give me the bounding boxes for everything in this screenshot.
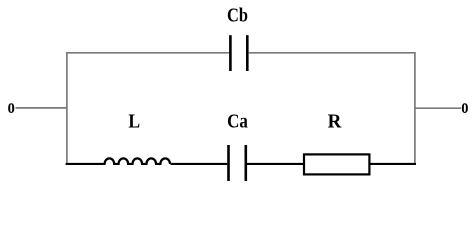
capacitor Cb bbox=[230, 35, 247, 71]
svg-text:Ca: Ca bbox=[227, 110, 248, 133]
wire Cb to top right corner bbox=[248, 52, 415, 54]
wire bottom left segment bbox=[66, 163, 106, 165]
svg-text:Cb: Cb bbox=[227, 4, 248, 26]
wire left vertical of box bbox=[66, 52, 68, 165]
wire resistor to bottom right corner bbox=[370, 163, 416, 165]
inductor L bbox=[105, 158, 170, 164]
wire Ca to resistor bbox=[247, 163, 304, 165]
wire top left horizontal to Cb bbox=[66, 52, 229, 54]
svg-text:o: o bbox=[8, 95, 15, 118]
wire inductor to Ca bbox=[171, 163, 228, 165]
capacitor Ca bbox=[229, 145, 246, 181]
wire right vertical of box bbox=[414, 52, 416, 165]
resistor R bbox=[304, 154, 369, 174]
wire right vertical to right terminal bbox=[415, 107, 462, 109]
svg-text:R: R bbox=[328, 111, 343, 133]
wire left terminal to left vertical bbox=[16, 107, 68, 109]
svg-text:L: L bbox=[128, 110, 140, 132]
svg-text:o: o bbox=[461, 95, 468, 118]
